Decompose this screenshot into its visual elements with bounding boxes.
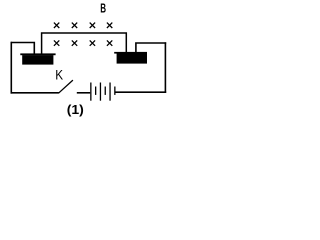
flux x row 1, symbol 1 — [54, 23, 59, 28]
wire battery to bottom right corner — [116, 91, 167, 93]
battery cell 3 negative plate — [114, 87, 115, 95]
switch right contact stub — [77, 92, 90, 94]
flux x row 2, symbol 1 — [54, 40, 59, 45]
right pole block body — [117, 54, 147, 64]
wire right vertical — [164, 42, 166, 93]
battery cell 1 negative plate — [95, 87, 96, 95]
flux x row 2, symbol 4 — [107, 40, 112, 45]
wire from left block up and left — [11, 43, 34, 56]
battery cell 1 positive plate — [90, 83, 91, 101]
battery cell 3 positive plate — [109, 83, 110, 101]
flux x row 2, symbol 2 — [72, 40, 77, 45]
battery cell 2 negative plate — [105, 87, 106, 95]
flux x row 1, symbol 2 — [72, 23, 77, 28]
left pole block top plate — [20, 53, 55, 55]
battery cell 2 positive plate — [100, 83, 101, 101]
flux x row 1, symbol 3 — [90, 23, 95, 28]
left pole block body — [22, 55, 53, 65]
field region boundary — [42, 33, 127, 55]
svg-text:(1): (1) — [67, 103, 84, 117]
switch K blade (open) — [59, 80, 73, 93]
flux x row 2, symbol 3 — [90, 40, 95, 45]
right pole block top plate — [114, 52, 147, 54]
flux x row 1, symbol 4 — [107, 23, 112, 28]
svg-text:K: K — [55, 66, 63, 82]
svg-text:B: B — [100, 2, 106, 16]
wire right hook down to right block — [136, 43, 166, 54]
wire bottom left to switch pivot — [11, 92, 59, 94]
wire left vertical — [10, 42, 12, 94]
